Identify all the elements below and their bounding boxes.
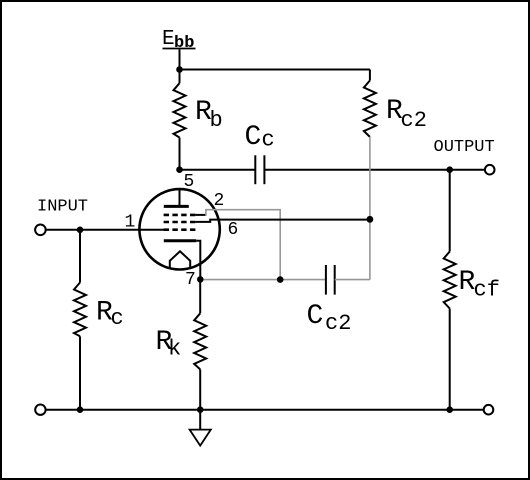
svg-text:2: 2	[214, 191, 225, 211]
junction	[367, 216, 374, 223]
svg-text:b: b	[210, 108, 223, 133]
tube V1 envelope	[139, 189, 219, 269]
wire	[196, 241, 200, 280]
resistor Rc2	[364, 70, 376, 137]
tube V1 plate	[164, 189, 189, 206]
junction	[77, 227, 84, 234]
resistor Rk	[194, 279, 206, 409]
ground	[190, 410, 211, 446]
resistor Rb	[174, 70, 186, 170]
wire	[335, 279, 370, 281]
svg-text:6: 6	[228, 220, 239, 240]
wire	[180, 169, 256, 171]
wire	[206, 210, 280, 280]
junction	[197, 406, 204, 413]
junction	[446, 406, 453, 413]
junction	[176, 66, 183, 73]
terminal INPUT	[35, 225, 46, 236]
label Cc2	[307, 301, 352, 336]
wire	[264, 169, 484, 171]
svg-text:c: c	[111, 306, 124, 331]
resistor Rcf	[444, 170, 456, 410]
label Rb	[195, 97, 223, 133]
terminal OUTPUT	[485, 165, 495, 175]
svg-text:cf: cf	[474, 277, 500, 302]
svg-text:INPUT: INPUT	[37, 198, 88, 217]
wire	[46, 229, 165, 231]
svg-text:k: k	[168, 337, 181, 362]
label Rk	[156, 327, 182, 362]
svg-text:c2: c2	[401, 108, 427, 133]
svg-text:C: C	[307, 301, 324, 332]
label Cc	[245, 122, 275, 153]
label Rc	[96, 298, 124, 331]
tube V1 grid g1	[164, 228, 196, 231]
wire	[46, 409, 484, 411]
junction	[446, 166, 453, 173]
resistor Rc	[74, 230, 86, 410]
label Rcf	[459, 267, 500, 302]
wire pin2	[196, 214, 206, 216]
junction	[176, 166, 183, 173]
tube V1 heater	[170, 251, 190, 268]
tube V1 grid g3	[164, 214, 196, 217]
capacitor Cc	[255, 155, 264, 184]
capacitor Cc2	[326, 265, 335, 295]
wire	[369, 137, 371, 280]
wire	[203, 279, 326, 281]
wire	[179, 50, 181, 70]
svg-text:bb: bb	[174, 34, 194, 53]
svg-text:7: 7	[185, 270, 196, 290]
power Ebb	[162, 28, 196, 53]
junction	[77, 406, 84, 413]
svg-text:E: E	[162, 28, 175, 51]
tube V1 cathode	[164, 239, 196, 242]
wire pin6	[196, 220, 370, 222]
wire	[180, 69, 370, 71]
svg-text:c2: c2	[325, 311, 351, 336]
label Rc2	[386, 96, 427, 133]
tube V1 grid g2	[164, 221, 196, 224]
junction	[197, 276, 204, 283]
junction	[277, 276, 284, 283]
terminal ground right	[484, 405, 494, 415]
svg-text:c: c	[262, 127, 275, 152]
terminal ground left	[35, 405, 45, 415]
svg-text:OUTPUT: OUTPUT	[434, 138, 495, 157]
svg-text:C: C	[245, 122, 262, 153]
